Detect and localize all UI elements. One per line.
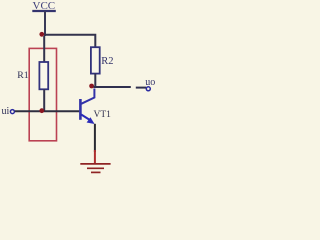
junction node dot (VCC/R1/R2) [39, 32, 44, 37]
highlight box around R1 [29, 48, 56, 140]
wire R2 bottom to output junction [94, 74, 96, 88]
wire R1 bottom to base node [43, 89, 45, 111]
junction node dot (R1/base) [39, 108, 44, 113]
svg-text:uo: uo [145, 77, 155, 88]
wire output segment 1 [94, 86, 131, 88]
terminal ui circle [10, 110, 14, 114]
transistor VT1 collector line [81, 89, 94, 104]
power symbol VCC bar [32, 10, 56, 12]
svg-text:R2: R2 [101, 56, 113, 67]
svg-text:R1: R1 [17, 70, 29, 81]
wire top rail to R2 [44, 35, 95, 48]
transistor VT1 base bar [79, 99, 82, 120]
ground bar 2 [87, 167, 104, 169]
transistor VT1 emitter line with arrow [81, 115, 90, 121]
ground bar 3 [91, 171, 101, 173]
terminal uo circle [146, 87, 150, 91]
wire ui to base [15, 110, 80, 112]
ground stem [94, 150, 96, 163]
svg-text:ui: ui [2, 106, 10, 117]
svg-text:VT1: VT1 [94, 110, 112, 120]
wire emitter to ground [94, 124, 96, 152]
wire output segment 2 [136, 87, 146, 89]
resistor R2 body [91, 47, 100, 73]
resistor R1 body [39, 62, 48, 89]
junction node dot (R2/collector/uo) [89, 84, 94, 89]
ground bar 1 [80, 163, 110, 165]
wire VCC to junction [44, 11, 46, 36]
wire junction down to R1 [43, 36, 45, 63]
